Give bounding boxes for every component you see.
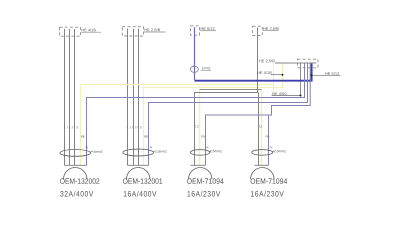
label 2,5mm2 breaker2 xyxy=(153,150,166,153)
socket dome breaker1 xyxy=(64,168,87,180)
socket dome breaker3 xyxy=(189,168,212,180)
label HE 6/12 cable X0 xyxy=(200,27,216,31)
wire L1 breaker1 xyxy=(64,29,66,165)
label PE breaker3 xyxy=(202,135,206,137)
label HE 4/50 leader to rail drop xyxy=(272,92,302,96)
rail wire into dashed box X4 xyxy=(275,62,316,64)
wire N breaker2 (blue) xyxy=(149,64,308,166)
wire L2 feed breaker4 (drop from B3 junction) xyxy=(258,93,260,166)
meter circle on main feed xyxy=(190,66,198,72)
cable entry X2 (dashed box, breaker 2 feed) xyxy=(122,27,143,36)
socket ellipse breaker4 xyxy=(252,150,273,156)
label N breaker2 xyxy=(150,146,152,148)
label 1mm2 at meter xyxy=(201,67,211,70)
wire L2 breaker1 xyxy=(69,29,71,165)
label 4mm2 breaker1 xyxy=(90,151,102,153)
cable gland X4 (dashed box on distribution rail) xyxy=(297,59,318,68)
label HE 4/1B cable X1 xyxy=(81,29,101,33)
terminal bar breaker3 xyxy=(191,164,206,166)
socket dome breaker2 xyxy=(127,168,150,180)
label 2,5mm2 breaker4 xyxy=(273,150,286,153)
main feed wire from cable X0 (violet) xyxy=(194,27,196,80)
label HE 6/12 leader to navy riser xyxy=(310,72,340,76)
socket dome breaker4 xyxy=(251,168,274,180)
label 16A/230V breaker3 xyxy=(188,191,221,197)
cable entry X3 (dashed box, breaker 3 feed) xyxy=(253,26,263,35)
label N breaker4 xyxy=(270,146,272,148)
wire L2 feed breaker3 (from cable X3) xyxy=(195,28,258,166)
socket ellipse breaker2 xyxy=(123,149,154,156)
label N breaker3 xyxy=(206,146,208,148)
label PE breaker1 xyxy=(81,136,85,138)
label HE 2,5/B rail wire xyxy=(259,59,274,62)
terminal bar breaker1 xyxy=(65,164,87,166)
terminal bar breaker4 xyxy=(255,164,269,166)
label L1 L2 L3 breaker1 xyxy=(64,126,78,128)
wire N breaker4 (blue drop) xyxy=(268,115,270,165)
wire L3 breaker2 xyxy=(138,29,140,166)
label L2 breaker4 xyxy=(259,125,262,127)
main bus (navy) across and riser to rail xyxy=(195,64,312,81)
label L2 breaker3 xyxy=(196,125,199,127)
wire PE breaker4 (yellow drop) xyxy=(261,90,263,166)
wire PE breaker1 (yellow riser, run and drop) xyxy=(81,63,274,165)
wire PE breaker2 (yellow) xyxy=(144,63,283,165)
wire N breaker3 (blue staircase from rail) xyxy=(206,64,311,166)
label 32A/400V xyxy=(60,191,93,197)
label 16A/400V xyxy=(124,191,157,197)
label OEM-132001 xyxy=(123,178,162,184)
socket ellipse breaker3 xyxy=(190,150,209,156)
label OEM-132002 xyxy=(60,178,99,184)
label OEM-71094 breaker4 xyxy=(251,178,287,184)
label HE 4/1B leader to yellow riser xyxy=(257,71,283,75)
wire PE breaker3 (yellow drop) xyxy=(199,90,201,166)
rail drop with HE 4/50 leader dot xyxy=(300,64,302,96)
label HE 2,5/B cable X2 xyxy=(144,28,165,32)
label 2,5mm2 breaker3 xyxy=(210,150,222,153)
socket ellipse breaker1 xyxy=(60,150,91,157)
wire L1 breaker2 xyxy=(127,29,129,166)
label PE breaker4 xyxy=(266,135,270,137)
wire N breaker1 (blue) xyxy=(87,64,305,166)
wire PE distribution run to breakers 3 and 4 xyxy=(200,89,262,91)
label OEM-71094 breaker3 xyxy=(187,178,223,184)
wire L2 breaker2 xyxy=(133,29,135,166)
terminal bar breaker2 xyxy=(128,164,149,166)
label HE 2,5/B cable X3 xyxy=(263,27,279,31)
label 16A/230V breaker4 xyxy=(251,191,284,197)
cable entry X0 (dashed box, main feed) xyxy=(191,26,200,35)
label N breaker1 xyxy=(86,146,88,148)
label L1 L2 L3 breaker2 xyxy=(128,126,142,128)
label PE breaker2 xyxy=(144,136,148,138)
cable entry X1 (dashed box, breaker 1 feed) xyxy=(60,27,81,36)
wire L3 breaker1 xyxy=(74,29,76,165)
